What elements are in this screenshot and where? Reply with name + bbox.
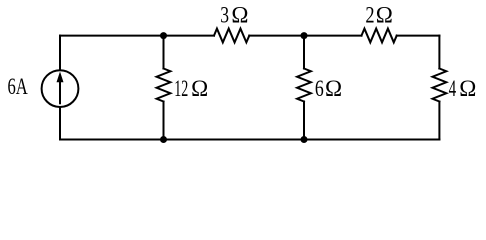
junction node B top	[301, 32, 308, 39]
svg-text:Ω: Ω	[325, 76, 342, 101]
resistor R2 2ohm zigzag	[362, 29, 397, 43]
svg-text:12: 12	[174, 76, 188, 101]
resistor R3 12ohm zigzag	[157, 69, 171, 102]
resistor R4 6ohm zigzag	[297, 69, 311, 102]
resistor R5 4ohm zigzag	[433, 69, 447, 102]
svg-text:3: 3	[220, 3, 229, 28]
wire 6ohm branch upper	[303, 36, 305, 69]
wire bottom rail	[60, 139, 439, 141]
wire node B to top-right corner	[397, 35, 440, 37]
junction node D bottom	[301, 136, 308, 143]
svg-text:Ω: Ω	[191, 76, 208, 101]
wire 12ohm branch upper	[163, 36, 165, 69]
wire right branch lower	[438, 102, 440, 140]
wire right branch upper	[438, 36, 440, 69]
svg-text:6: 6	[315, 76, 324, 101]
junction node A top	[160, 32, 167, 39]
svg-text:Ω: Ω	[376, 3, 393, 28]
wire 12ohm branch lower	[163, 102, 165, 140]
svg-text:Ω: Ω	[231, 3, 248, 28]
svg-text:4: 4	[449, 76, 457, 101]
current source I1 arrow shaft	[59, 81, 61, 103]
wire top-left to node A	[60, 35, 214, 37]
current source I1 arrowhead	[57, 72, 64, 83]
wire left branch lower	[59, 108, 61, 140]
junction node C bottom	[160, 136, 167, 143]
resistor R1 3ohm zigzag	[214, 29, 249, 43]
wire node A to node B	[249, 35, 361, 37]
wire left branch upper	[59, 36, 61, 70]
svg-text:6A: 6A	[8, 74, 29, 99]
current source I1 circle	[42, 70, 79, 107]
svg-text:Ω: Ω	[459, 76, 476, 101]
wire 6ohm branch lower	[303, 102, 305, 140]
svg-text:2: 2	[365, 3, 374, 28]
